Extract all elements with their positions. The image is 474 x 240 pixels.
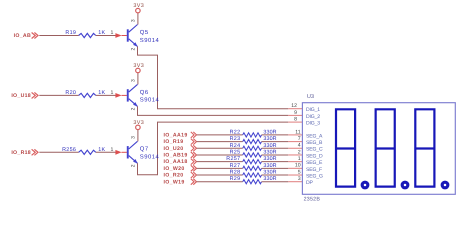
svg-text:2352B: 2352B (304, 196, 321, 202)
svg-text:10: 10 (295, 163, 301, 169)
svg-text:SEG_F: SEG_F (306, 167, 322, 173)
svg-text:DIG_1: DIG_1 (306, 107, 320, 113)
svg-text:1K: 1K (98, 90, 105, 96)
svg-text:5: 5 (298, 169, 301, 175)
svg-text:Q6: Q6 (140, 89, 149, 96)
svg-text:IO_U20: IO_U20 (164, 146, 184, 152)
svg-text:Q5: Q5 (140, 29, 149, 36)
svg-text:330R: 330R (263, 129, 276, 135)
svg-text:SEG_C: SEG_C (306, 147, 323, 153)
svg-text:7: 7 (298, 136, 301, 142)
svg-text:1: 1 (111, 90, 114, 96)
svg-text:IO_R18: IO_R18 (11, 150, 31, 156)
svg-text:R19: R19 (65, 30, 76, 36)
svg-text:3: 3 (130, 19, 136, 22)
svg-text:IO_R19: IO_R19 (164, 139, 184, 145)
svg-text:4: 4 (298, 143, 301, 149)
svg-text:R22: R22 (230, 129, 241, 135)
svg-text:3V3: 3V3 (133, 120, 144, 126)
svg-text:SEG_G: SEG_G (306, 173, 323, 179)
svg-text:8: 8 (294, 117, 297, 123)
svg-text:1K: 1K (98, 30, 105, 36)
svg-text:3: 3 (130, 79, 136, 82)
svg-text:3V3: 3V3 (133, 3, 144, 9)
svg-text:2: 2 (130, 47, 136, 50)
svg-text:S9014: S9014 (140, 97, 160, 104)
svg-text:12: 12 (291, 103, 297, 109)
svg-text:330R: 330R (263, 136, 276, 142)
svg-text:S9014: S9014 (140, 154, 160, 161)
svg-text:R24: R24 (230, 143, 241, 149)
svg-text:IO_AA19: IO_AA19 (164, 132, 188, 138)
svg-text:3V3: 3V3 (133, 63, 144, 69)
svg-text:R23: R23 (230, 136, 241, 142)
svg-text:1: 1 (111, 30, 114, 36)
svg-text:R256: R256 (62, 147, 76, 153)
svg-text:1K: 1K (98, 147, 105, 153)
svg-text:SEG_D: SEG_D (306, 153, 323, 159)
svg-text:3: 3 (298, 176, 301, 182)
svg-text:DIG_3: DIG_3 (306, 121, 320, 127)
svg-text:11: 11 (295, 129, 300, 135)
svg-text:2: 2 (130, 164, 136, 167)
svg-text:IO_AB19: IO_AB19 (164, 153, 188, 159)
svg-text:330R: 330R (263, 143, 276, 149)
svg-text:1: 1 (111, 147, 114, 153)
svg-text:IO_AA18: IO_AA18 (164, 159, 188, 165)
svg-text:IO_R20: IO_R20 (164, 173, 184, 179)
svg-text:IO_W20: IO_W20 (164, 166, 185, 172)
svg-text:2: 2 (130, 107, 136, 110)
svg-text:R28: R28 (230, 170, 241, 176)
svg-text:1: 1 (298, 156, 301, 162)
svg-text:2: 2 (298, 149, 301, 155)
svg-text:SEG_B: SEG_B (306, 140, 323, 146)
svg-text:SEG_A: SEG_A (306, 133, 323, 139)
svg-text:IO_U18: IO_U18 (11, 93, 31, 99)
svg-text:DP: DP (306, 180, 314, 186)
svg-text:R257: R257 (226, 156, 240, 162)
svg-text:R20: R20 (65, 90, 76, 96)
svg-text:IO_AB: IO_AB (14, 33, 31, 39)
svg-text:3: 3 (130, 136, 136, 139)
svg-text:9: 9 (294, 110, 297, 116)
svg-text:R25: R25 (230, 149, 241, 155)
svg-text:DIG_2: DIG_2 (306, 114, 320, 120)
svg-text:R29: R29 (230, 176, 241, 182)
svg-text:330R: 330R (263, 163, 276, 169)
svg-text:S9014: S9014 (140, 37, 160, 44)
svg-text:Q7: Q7 (140, 146, 149, 153)
svg-text:330R: 330R (263, 149, 276, 155)
svg-text:R27: R27 (230, 163, 241, 169)
svg-text:330R: 330R (263, 170, 276, 176)
svg-text:330R: 330R (263, 156, 276, 162)
svg-text:SEG_E: SEG_E (306, 160, 323, 166)
svg-text:330R: 330R (263, 176, 276, 182)
svg-text:IO_W19: IO_W19 (164, 179, 185, 185)
svg-text:U3: U3 (307, 94, 314, 100)
